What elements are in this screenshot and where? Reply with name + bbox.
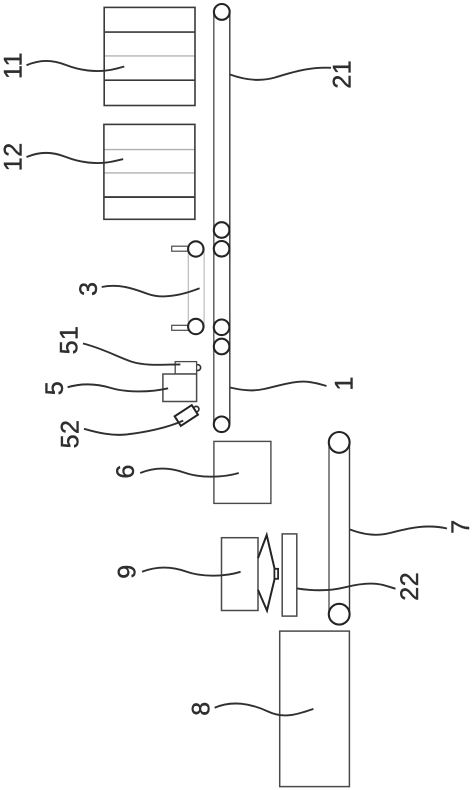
unit 6 box bbox=[214, 441, 271, 503]
roller: belt 1 bottom bbox=[214, 417, 230, 433]
unit 5 box bbox=[163, 374, 197, 402]
unit 3 top roller bbox=[188, 241, 203, 256]
leader line to 12 bbox=[27, 153, 124, 163]
main conveyor band right edge bbox=[229, 12, 231, 425]
feeder box 11 bbox=[104, 7, 195, 105]
leader line to 7 bbox=[350, 526, 447, 534]
roller: belt 21 bottom bbox=[214, 222, 230, 238]
svg-text:21: 21 bbox=[329, 60, 357, 89]
leader line to 52 bbox=[84, 421, 183, 435]
unit 3 top stem bbox=[172, 246, 189, 251]
leader line to 3 bbox=[102, 286, 200, 297]
roller: belt mid bottom bbox=[214, 320, 230, 336]
roller: belt 21 top bbox=[214, 4, 230, 20]
unit 9 body box bbox=[222, 538, 259, 611]
unit 9 nozzle nub bbox=[274, 569, 278, 579]
conveyor 7 top roller bbox=[329, 432, 350, 453]
svg-text:51: 51 bbox=[55, 326, 83, 355]
conveyor 7 left edge bbox=[328, 442, 330, 614]
feeder box 12 bbox=[104, 124, 195, 219]
unit 3 bottom roller bbox=[188, 319, 203, 334]
unit 9 horn upper bbox=[258, 535, 275, 569]
unit 3 bottom stem bbox=[172, 325, 189, 330]
leader line to 6 bbox=[140, 469, 239, 477]
main conveyor band (21 / 1) left edge bbox=[213, 12, 215, 425]
leader line to 51 bbox=[83, 344, 180, 365]
unit 51 side nub bbox=[195, 365, 201, 371]
svg-text:11: 11 bbox=[0, 52, 28, 79]
svg-text:1: 1 bbox=[330, 376, 358, 390]
leader line to 22 bbox=[297, 584, 396, 591]
unit 52 tilted box bbox=[175, 405, 198, 426]
unit 9 horn lower bbox=[258, 579, 275, 611]
svg-text:7: 7 bbox=[447, 519, 474, 533]
receiving box 8 bbox=[280, 631, 350, 787]
leader line to 21 bbox=[230, 68, 331, 80]
conveyor 7 bottom roller bbox=[329, 604, 350, 625]
plate 22 bbox=[282, 534, 297, 616]
svg-text:5: 5 bbox=[41, 381, 69, 395]
svg-text:52: 52 bbox=[56, 420, 84, 449]
svg-text:6: 6 bbox=[112, 464, 140, 478]
leader line to 11 bbox=[27, 61, 125, 71]
svg-text:9: 9 bbox=[114, 564, 142, 578]
conveyor 7 right edge bbox=[349, 442, 351, 614]
unit 3 frame bbox=[188, 249, 204, 327]
roller: belt 1 top bbox=[214, 339, 230, 355]
svg-text:3: 3 bbox=[75, 281, 103, 295]
leader line to 9 bbox=[142, 568, 241, 576]
svg-text:12: 12 bbox=[0, 142, 28, 171]
leader line to 1 bbox=[230, 382, 327, 391]
unit 51 small box bbox=[175, 362, 196, 374]
roller: belt mid top bbox=[214, 241, 230, 257]
svg-text:8: 8 bbox=[187, 701, 215, 715]
leader line to 8 bbox=[215, 704, 314, 716]
svg-text:22: 22 bbox=[396, 572, 424, 601]
leader line to 5 bbox=[68, 384, 169, 391]
unit 52 side nub bbox=[194, 406, 199, 411]
